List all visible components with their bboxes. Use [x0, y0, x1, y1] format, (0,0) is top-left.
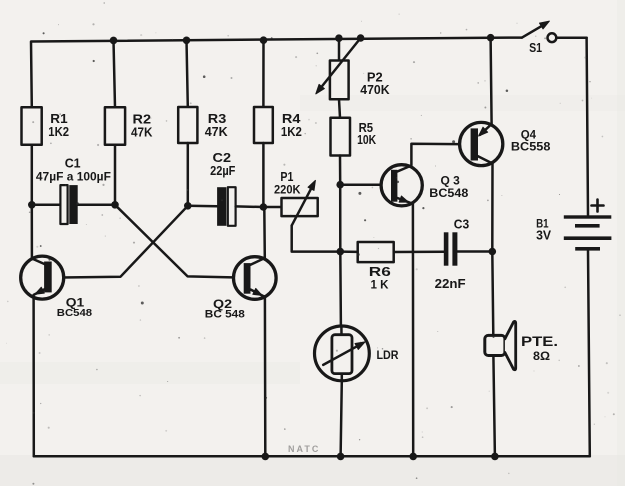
wire R2 branch: [114, 40, 116, 107]
svg-text:LDR: LDR: [377, 348, 399, 362]
svg-text:BC548: BC548: [57, 307, 92, 319]
svg-text:1K2: 1K2: [48, 124, 69, 139]
wire Q3 base: [340, 183, 391, 186]
svg-text:C2: C2: [213, 150, 232, 165]
wire R3 branch: [187, 40, 188, 107]
transistor Q4: [460, 38, 503, 252]
svg-text:220K: 220K: [274, 182, 301, 196]
potentiometer P2: [316, 38, 361, 118]
svg-text:BC 548: BC 548: [205, 308, 245, 320]
wire node A to C1: [32, 204, 61, 207]
capacitor C2: [217, 187, 236, 226]
svg-text:C1: C1: [65, 155, 81, 170]
svg-text:1 K: 1 K: [371, 277, 389, 291]
transistor Q3: [381, 144, 471, 457]
transistor Q1: [21, 205, 64, 456]
wire C2 to node D: [236, 205, 264, 208]
svg-text:BC558: BC558: [511, 142, 551, 154]
svg-text:47K: 47K: [131, 125, 153, 140]
speaker PTE: [485, 252, 516, 457]
capacitor C1: [60, 185, 77, 224]
wire top rail with left corner down to R1: [31, 38, 522, 108]
resistor R3: [178, 107, 197, 143]
svg-text:Q4: Q4: [521, 127, 537, 141]
svg-text:S1: S1: [529, 41, 542, 55]
wire R3 bottom to node: [187, 143, 190, 206]
resistor R6: [340, 242, 444, 262]
wire R2 bottom to node: [114, 145, 117, 205]
svg-text:PTE.: PTE.: [521, 334, 558, 349]
svg-text:470K: 470K: [360, 83, 389, 97]
wire node C to C2: [188, 205, 217, 208]
wire Q3 base node down to R6 node: [339, 185, 342, 252]
svg-text:22µF: 22µF: [210, 164, 236, 178]
LDR: [315, 252, 370, 457]
wire cross-coupling C2 node to Q1 base: [52, 206, 188, 278]
svg-text:8Ω: 8Ω: [533, 349, 550, 363]
svg-text:47µF a 100µF: 47µF a 100µF: [36, 170, 111, 184]
potentiometer P1: [263, 180, 340, 251]
wire bottom rail: [34, 455, 590, 458]
svg-text:3V: 3V: [536, 228, 552, 242]
switch S1: [522, 21, 587, 42]
svg-text:C3: C3: [454, 217, 469, 232]
resistor R4: [254, 107, 273, 143]
wire R5 bottom to Q3 base node: [339, 156, 342, 185]
transistor Q2: [234, 207, 277, 456]
wire R4 branch: [262, 40, 265, 107]
svg-text:NATC: NATC: [288, 444, 320, 454]
svg-text:Q 3: Q 3: [441, 174, 461, 188]
wire R4 bottom to node: [262, 143, 265, 207]
svg-text:BC548: BC548: [429, 188, 469, 200]
battery B1: [564, 38, 612, 457]
svg-text:47K: 47K: [205, 124, 229, 139]
wire R1 bottom to node: [31, 145, 34, 205]
svg-text:10K: 10K: [357, 133, 376, 147]
svg-text:1K2: 1K2: [281, 124, 302, 139]
wire C1 to node B: [78, 204, 115, 207]
svg-text:22nF: 22nF: [435, 277, 466, 291]
resistor R1: [22, 107, 42, 144]
wire cross-coupling C1 node to Q2 base: [115, 205, 244, 278]
resistor R2: [105, 107, 125, 144]
capacitor C3: [444, 232, 493, 265]
resistor R5: [331, 118, 351, 156]
